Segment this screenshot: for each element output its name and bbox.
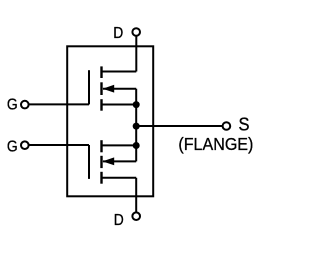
Q2 body arrow <box>102 157 114 165</box>
svg-text:D: D <box>114 212 124 229</box>
terminal G1 <box>21 101 29 109</box>
transistor Q1 <box>89 66 136 110</box>
wire D bottom lead <box>135 178 137 213</box>
Q1 channel dash source <box>100 99 102 111</box>
Q1 source stub <box>102 104 137 106</box>
terminal S <box>223 122 231 130</box>
wire G2 lead <box>29 144 90 146</box>
Q2 channel dash body <box>100 156 102 168</box>
junction node dot Q2 source <box>133 142 140 149</box>
terminal D top <box>132 28 140 36</box>
Q2 gate bar <box>88 145 90 179</box>
Q1 body arrow <box>103 85 115 93</box>
junction node dot Q1 source <box>133 101 140 108</box>
svg-text:(FLANGE): (FLANGE) <box>178 134 253 154</box>
Q2 source stub <box>102 144 137 146</box>
Q2 channel dash source <box>100 140 102 152</box>
svg-text:G: G <box>7 139 18 156</box>
terminal D bottom <box>132 212 140 220</box>
wire source bus vertical <box>135 89 137 162</box>
Q1 body stub <box>103 88 136 90</box>
junction node dot S <box>133 123 140 130</box>
Q1 gate bar <box>88 70 90 104</box>
Q2 drain stub <box>102 177 137 179</box>
svg-text:G: G <box>7 97 18 114</box>
svg-text:S: S <box>239 114 250 134</box>
package outline box <box>67 46 153 196</box>
Q1 channel dash drain <box>100 66 102 78</box>
Q1 channel dash body <box>100 82 102 95</box>
wire S lead <box>136 125 222 127</box>
terminal G2 <box>21 141 29 149</box>
Q2 channel dash drain <box>100 172 102 184</box>
wire G1 lead <box>29 103 90 105</box>
transistor Q2 <box>89 140 136 184</box>
Q2 body stub <box>103 160 136 162</box>
Q1 drain stub <box>102 71 137 73</box>
svg-text:D: D <box>113 25 123 42</box>
wire D top lead <box>135 36 137 72</box>
